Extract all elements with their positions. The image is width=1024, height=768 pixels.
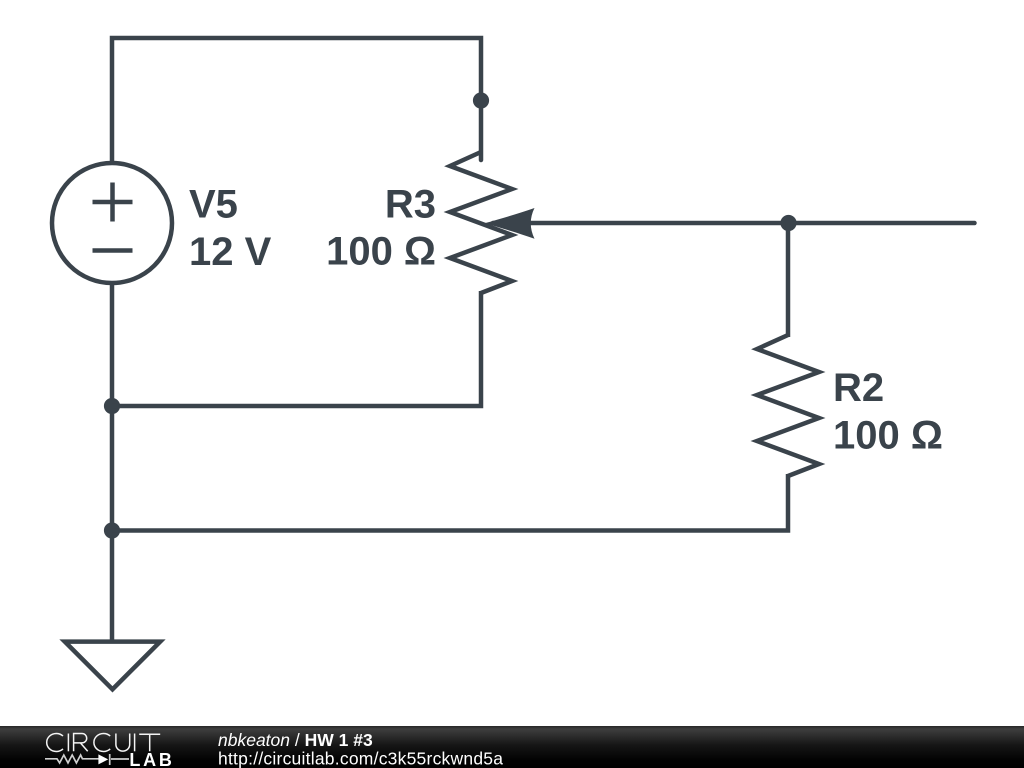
node A: junction of V5 branch with R3 bottom wire <box>104 398 120 414</box>
svg-text:100 Ω: 100 Ω <box>326 230 436 274</box>
wire: top loop from V5 plus terminal to R3 top terminal <box>112 38 481 164</box>
logo diode triangle <box>98 754 108 764</box>
voltage source V5 circle <box>52 163 172 283</box>
node B: junction of V5 branch with R2 bottom wire <box>104 522 120 538</box>
svg-text:12 V: 12 V <box>189 230 272 274</box>
svg-text:R3: R3 <box>385 183 436 227</box>
V5 minus sign <box>93 248 133 253</box>
svg-text:LAB: LAB <box>129 750 172 768</box>
node dot: wiper line junction with R2 <box>780 215 796 231</box>
node dot at R3 top terminal <box>473 92 489 108</box>
svg-text:V5: V5 <box>189 183 238 227</box>
svg-text:nbkeaton / HW 1 #3: nbkeaton / HW 1 #3 <box>218 730 373 750</box>
footer bar <box>0 726 1024 768</box>
svg-text:100 Ω: 100 Ω <box>833 414 943 458</box>
R3 wiper arrowhead <box>484 208 534 239</box>
ground symbol <box>65 642 160 690</box>
wire: R3 wiper output line to the right <box>493 221 975 226</box>
wire: R3 bottom lead to node A <box>112 291 481 406</box>
svg-text:http://circuitlab.com/c3k55rck: http://circuitlab.com/c3k55rckwnd5a <box>218 749 503 768</box>
V5 plus sign <box>93 183 133 222</box>
wire: R2 top lead <box>786 223 791 337</box>
wire: V5 minus terminal down to ground <box>110 283 115 642</box>
resistor R2 zigzag body <box>757 335 819 476</box>
svg-text:R2: R2 <box>833 366 884 410</box>
logo resistor squiggle and diode <box>45 754 129 765</box>
potentiometer R3 zigzag body <box>450 152 512 293</box>
wire: R2 bottom lead to node B <box>112 474 788 531</box>
logo CIRCUIT wordmark <box>47 733 160 751</box>
